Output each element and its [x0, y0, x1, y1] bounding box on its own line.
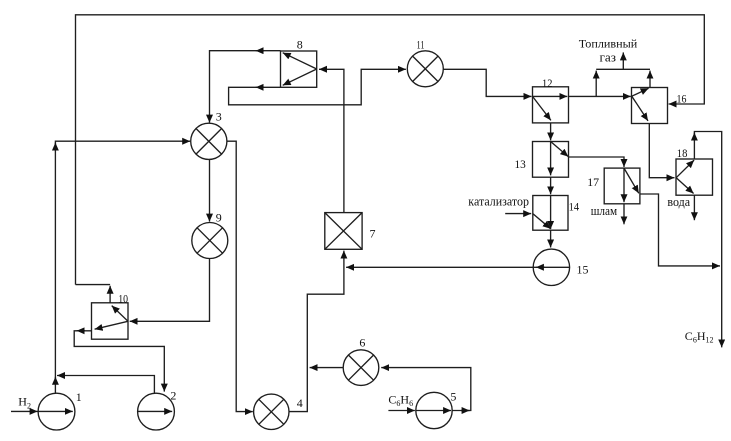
svg-text:C6H6: C6H6 [388, 392, 413, 408]
svg-text:5: 5 [450, 390, 456, 404]
svg-text:Топливный: Топливный [579, 36, 638, 50]
svg-text:1: 1 [76, 390, 82, 404]
svg-text:11: 11 [417, 38, 425, 52]
svg-text:C6H12: C6H12 [685, 329, 714, 345]
svg-text:вода: вода [667, 194, 690, 209]
svg-text:7: 7 [370, 227, 376, 241]
svg-text:9: 9 [216, 211, 222, 225]
svg-text:H2: H2 [18, 395, 31, 411]
svg-text:10: 10 [118, 291, 128, 305]
svg-text:16: 16 [677, 92, 687, 106]
svg-text:8: 8 [297, 38, 303, 52]
svg-text:12: 12 [542, 76, 552, 90]
svg-text:13: 13 [515, 157, 526, 171]
svg-text:6: 6 [359, 335, 365, 349]
svg-text:15: 15 [577, 263, 589, 277]
svg-text:4: 4 [297, 396, 303, 410]
svg-text:шлам: шлам [591, 203, 617, 218]
svg-text:18: 18 [677, 146, 688, 160]
svg-text:14: 14 [569, 199, 580, 213]
svg-text:17: 17 [587, 175, 599, 189]
svg-text:3: 3 [216, 110, 222, 124]
svg-text:2: 2 [170, 389, 176, 403]
svg-text:катализатор: катализатор [468, 194, 529, 209]
svg-text:газ: газ [600, 49, 617, 64]
